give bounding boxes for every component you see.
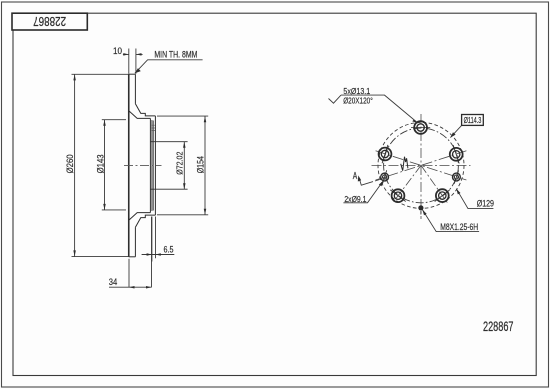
leader D114.3	[450, 125, 461, 137]
section: disc bottom edge	[129, 256, 136, 258]
dimension D72.02 lines	[183, 142, 185, 190]
bolt hole B3 upper right	[450, 148, 463, 161]
tick bolt B1 tangential	[411, 127, 430, 129]
section: stud hole ticks	[151, 125, 155, 130]
tick hole H2 tangential	[454, 170, 458, 183]
radial centerline 18-198	[376, 151, 467, 180]
front view: bolt circle D114.3 dash-dot	[384, 128, 459, 203]
tick hole H1 tangential	[383, 170, 387, 183]
radial centerline 162-342	[376, 151, 467, 180]
section: flange second line	[151, 120, 153, 211]
crosshair horizontal	[372, 164, 471, 166]
svg-text:Ø72.02: Ø72.02	[174, 151, 184, 174]
bolt hole B1 top	[414, 121, 427, 134]
radial centerline 306	[421, 165, 448, 204]
svg-text:6.5: 6.5	[164, 244, 174, 254]
section: hat inner top profile	[129, 111, 151, 119]
svg-text:2xØ9.1: 2xØ9.1	[344, 194, 366, 204]
leader D129	[456, 189, 493, 209]
section arrow A head	[358, 175, 361, 181]
section: disc right face bottom segment	[134, 227, 136, 257]
small hole H2 right D9.1	[453, 173, 461, 181]
dimension 6.5 lines	[142, 217, 175, 262]
section: mounting face	[154, 116, 156, 215]
section: disc left face	[128, 74, 130, 257]
svg-text:Ø143: Ø143	[95, 154, 105, 173]
M8 threaded hole	[418, 205, 423, 210]
min thickness leader	[135, 60, 203, 73]
arrows D154	[204, 116, 207, 122]
svg-text:MIN TH. 8MM: MIN TH. 8MM	[154, 50, 197, 60]
section: bore bottom edge	[150, 188, 187, 190]
tick bolt B2 tangential	[382, 145, 388, 163]
D114.3 label box	[462, 115, 484, 126]
dimension D260 lines	[72, 74, 129, 256]
svg-text:Ø129: Ø129	[477, 199, 494, 210]
arrows 34	[129, 286, 135, 289]
section: disc top edge	[129, 73, 136, 75]
section: flange inner face	[149, 118, 151, 212]
front view: flange circle D129 dashed	[378, 122, 464, 208]
leader M8	[422, 210, 479, 232]
tick bolt B3 tangential	[453, 145, 459, 163]
surface finish squiggle mark on hub face	[401, 157, 408, 171]
svg-text:M8X1.25-6H: M8X1.25-6H	[440, 222, 478, 233]
section arrow A dashes	[375, 179, 382, 181]
tick M8 vertical	[420, 211, 422, 215]
section: hat outer bottom profile	[135, 215, 155, 227]
small hole H1 left D9.1	[381, 173, 389, 181]
svg-text:A: A	[353, 170, 358, 182]
section: hat inner bottom profile	[129, 213, 151, 221]
section: axis centerline	[124, 165, 162, 167]
arrows D72.02	[183, 142, 186, 148]
svg-text:228867: 228867	[33, 14, 66, 29]
arrows 6.5	[147, 253, 152, 256]
svg-text:Ø260: Ø260	[65, 154, 75, 173]
svg-text:Ø154: Ø154	[196, 156, 206, 173]
leader 2xD9.1	[343, 181, 383, 203]
dimension 10 lines	[123, 49, 143, 74]
section: disc right face top segment	[134, 74, 136, 104]
bolt hole B4 lower left	[392, 189, 405, 202]
title box	[12, 13, 87, 30]
svg-text:34: 34	[109, 277, 118, 287]
bolt hole B2 upper left	[379, 148, 392, 161]
section: bore top edge	[150, 141, 187, 143]
dimension D143 lines	[102, 120, 126, 210]
svg-text:10: 10	[113, 46, 122, 56]
leader arrowhead 5xD13.1	[412, 120, 418, 124]
arrows D143	[103, 120, 106, 126]
leader arrowhead M8	[422, 210, 426, 216]
tick bolt B5 tangential	[435, 190, 450, 202]
section arrow A polyline	[359, 179, 373, 186]
radial centerline 234	[392, 165, 421, 203]
svg-text:Ø114.3: Ø114.3	[464, 115, 482, 125]
section: bore silhouette	[152, 121, 154, 211]
leader arrowhead D114.3	[450, 132, 455, 137]
arrow min thickness	[135, 68, 141, 73]
section: hat outer top profile	[135, 104, 155, 116]
arrows D260	[73, 74, 76, 80]
dimension D154 lines	[157, 116, 208, 215]
svg-text:5xØ13.1: 5xØ13.1	[343, 86, 370, 96]
leader arrowhead 2xD9.1	[379, 181, 384, 187]
bolt hole B5 lower right	[436, 189, 449, 202]
dimension 34 lines	[109, 217, 152, 288]
leader arrowhead D129	[456, 189, 460, 195]
crosshair vertical	[420, 114, 422, 219]
svg-text:228867: 228867	[483, 319, 514, 334]
tick bolt B4 tangential	[390, 190, 405, 202]
svg-text:Ø20X120°: Ø20X120°	[343, 96, 373, 106]
leader 5xD13.1	[329, 95, 419, 123]
arrows 10	[123, 53, 129, 56]
